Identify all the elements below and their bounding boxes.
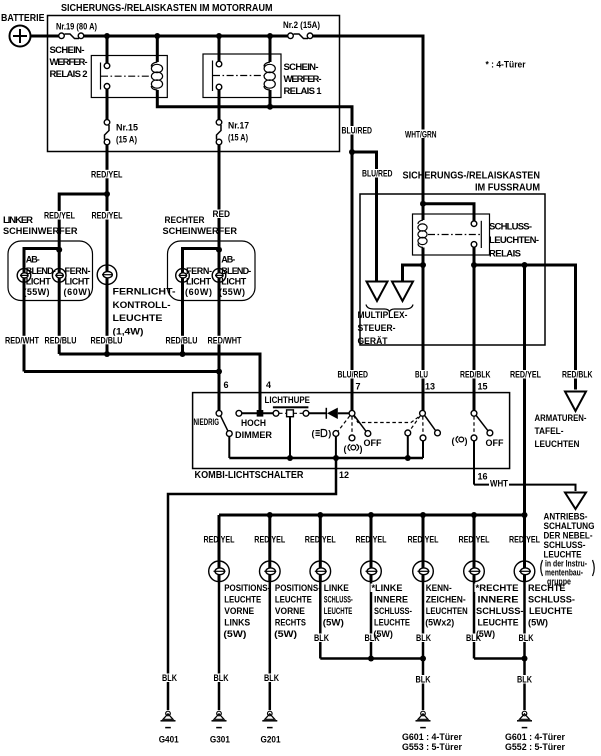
svg-text:OFF: OFF [364,438,382,449]
wire HOCH to pin4 to flasher contact [242,412,273,414]
svg-text:BLU: BLU [415,370,428,380]
node bus junction x219 [216,33,222,39]
node contact output split [471,262,477,268]
wire WHT/GRN from fuse Nr.2 to fuss-raum relay [313,36,424,204]
svg-text:BLEND-: BLEND- [221,266,251,276]
wire relay1 contact to fuse Nr.17 [218,90,221,120]
node flasher bridge on bus [287,455,293,461]
label RED/YEL below fuse box [90,169,124,179]
node RED/YEL tail feed junction [522,262,528,268]
wire right high beam down RED/BLU [181,283,184,354]
SECTION-LAMPS [159,512,575,752]
svg-text:BLK: BLK [314,633,329,643]
label RED/YEL lamp2 [253,535,286,545]
wire inside left headlight to low beam [24,249,59,269]
switch arm pole2 [425,416,436,431]
node bus x269.8 [267,512,273,518]
svg-text:SCHEIN-: SCHEIN- [284,62,319,73]
node bus x423 [420,512,426,518]
svg-text:(15 A): (15 A) [116,135,137,145]
svg-text:BLK: BLK [264,673,279,683]
svg-text:G601 : 4-Türer: G601 : 4-Türer [505,732,565,742]
node right headlight split [216,247,222,253]
label RED/BLU right [165,335,199,345]
svg-text:BLU/RED: BLU/RED [338,370,369,380]
contact flasher right [303,410,309,416]
tail light relay contact [471,221,481,248]
svg-text:WHT/GRN: WHT/GRN [405,130,437,140]
wire RED/YEL from fuse Nr.15 down [106,145,109,195]
lamp position front left (5W) [209,515,230,710]
wire left high beam down RED/BLU [58,283,61,354]
label LINKE SCHLUSS-LEUCHTE [323,583,353,628]
svg-text:INNERE: INNERE [478,595,519,605]
svg-text:LEUCHTE: LEUCHTE [478,618,519,628]
svg-text:RECHTER: RECHTER [165,215,205,226]
contact pin6 NIEDRIG [216,410,222,416]
dashes pole2 to left contact [410,416,421,431]
lamp left high beam (60W) [52,268,66,283]
svg-text:BLK: BLK [214,673,229,683]
svg-text:FERN-: FERN- [186,266,212,276]
wire bus to relay1 coil [269,36,272,62]
svg-text:LINKS: LINKS [224,618,250,628]
svg-text:Nr.15: Nr.15 [116,123,138,133]
wire tail relay contact down to pin 15 [473,247,476,411]
wire right low beam down RED/WHT to pin 6 [218,283,221,411]
label BLK G401 [161,673,178,683]
svg-text:LEUCHTE: LEUCHTE [224,595,261,605]
node lamp5 on ground bus [420,656,426,662]
contact pin7 pivot [349,410,355,416]
contact flasher left [273,410,279,416]
svg-text:AB-: AB- [26,255,40,265]
relay 2 contact [101,63,152,90]
wire BLU/RED down to pin 7 [351,152,354,411]
label BLK G201 [263,673,280,683]
label RED/YEL left branch [43,211,76,221]
wire coil output to multiplex right arrow [403,265,424,282]
node relay1 coil bottom junction [267,104,273,110]
svg-text:*LINKE: *LINKE [372,583,403,593]
svg-text:(: ( [452,436,455,446]
node lamp4 on ground bus [368,656,374,662]
wire right low beam feed [218,250,221,268]
node lamp7 on ground bus [522,656,528,662]
fuse Nr.2 (15A) [283,20,320,39]
node bus junction x270 [267,33,273,39]
label BLK lamp6 [465,633,482,643]
svg-text:(55W): (55W) [24,287,50,297]
svg-text:): ) [328,429,331,439]
svg-text:BATTERIE: BATTERIE [1,13,45,24]
wire RED/BLU bus to pin 4 [59,354,260,411]
node bus junction x157 [154,33,160,39]
relay 2 coil [151,62,162,90]
wire RED/YEL down to lamp bus [523,265,526,515]
wire BLK ground bus right group [474,657,525,660]
svg-text:ARMATUREN-: ARMATUREN- [535,413,587,424]
left headlight box [8,241,93,301]
label RED/YEL lamp1 [203,535,236,545]
contact pole3 pivot pin15 [471,410,477,416]
svg-text:(5W): (5W) [476,629,495,639]
diode D1 [326,408,349,419]
contact DIMMER common [226,431,232,437]
svg-text:4: 4 [266,380,271,390]
wire RED/YEL branch to left headlight [59,194,107,249]
label RECHTE INNERE SCHLUSS-LEUCHTE [475,583,524,639]
wire pin 16 down [473,441,475,485]
svg-text:RECHTS: RECHTS [275,618,306,628]
svg-text:): ) [465,436,468,446]
lamp left low beam (55W) [17,268,31,283]
label BLK G301 [213,673,230,683]
label BLU/RED upper [341,126,373,136]
svg-text:15: 15 [478,382,488,392]
wire headlight contact to ground bus [335,436,337,458]
svg-text:SCHLUSS-: SCHLUSS- [544,540,586,550]
label BLU/RED pin7 [337,370,369,380]
svg-text:16: 16 [478,472,488,482]
svg-text:Nr.17: Nr.17 [228,121,249,131]
svg-text:RELAIS 2: RELAIS 2 [50,69,88,80]
arrow to dash panel lights [565,392,586,412]
dashes linkage pole1 pole2 [354,416,421,423]
node pin12 takeoff on bus [333,455,339,461]
label position lamps symbol [344,444,363,454]
label RED [212,209,232,219]
node right high beam joins RED/BLU bus [180,351,186,357]
label RED/WHT left [4,335,40,345]
SECTION-SWITCH [168,380,595,710]
svg-text:(: ( [312,429,315,439]
svg-text:SCHEINWERFER: SCHEINWERFER [163,226,238,237]
svg-text:LICHTHUPE: LICHTHUPE [265,395,311,406]
node indicator joins RED/BLU bus [104,351,110,357]
svg-text:SCHLUSS-: SCHLUSS- [528,595,575,605]
ground G601/G553 [402,711,462,752]
SECTION-TOP [1,3,526,411]
label POSITIONSLEUCHTE VORNE LINKS [223,583,270,639]
relay 1 coil [264,62,275,90]
svg-text:LICHT: LICHT [221,276,247,286]
svg-text:RED/BLK: RED/BLK [562,370,593,380]
svg-text:RED/BLU: RED/BLU [91,335,123,345]
multiplex underbrace [366,305,413,312]
relay headlight relay 2 box [91,56,167,98]
svg-text:LEUCHTE: LEUCHTE [529,606,573,616]
svg-text:(5W): (5W) [274,629,297,639]
svg-text:SCHLUSS-: SCHLUSS- [374,606,412,616]
lamp left inner tail light (5W) [361,515,382,659]
svg-text:TAFEL-: TAFEL- [535,426,564,437]
switch arm pole1 to OFF [354,416,366,432]
node pole2 left on bus [405,455,411,461]
contact headlight position [333,431,339,437]
svg-text:BLK: BLK [416,633,431,643]
svg-text:12: 12 [339,470,349,480]
node bus x320.3 [317,512,323,518]
svg-text:Nr.2 (15A): Nr.2 (15A) [283,20,320,30]
svg-text:GERÄT: GERÄT [358,336,388,347]
svg-text:INNERE: INNERE [374,595,408,605]
lamp license plate lights (5Wx2) [413,515,434,659]
svg-text:RED/YEL: RED/YEL [510,370,541,380]
wire RED from fuse Nr.17 down [218,145,221,249]
svg-text:MULTIPLEX-: MULTIPLEX- [358,310,408,321]
svg-text:POSITIONS-: POSITIONS- [275,583,321,593]
svg-text:* : 4-Türer: * : 4-Türer [486,60,526,71]
svg-text:6: 6 [224,380,229,390]
label RECHTE SCHLUSS-LEUCHTE [528,583,575,628]
svg-text:(5W): (5W) [223,629,246,639]
switch arm pole3 to OFF [476,416,488,431]
label parking symbol [452,436,468,446]
lamp right inner tail light (5W) [464,515,485,659]
label RED/YEL mid branch [91,211,124,221]
svg-text:(15 A): (15 A) [228,133,248,143]
contact pole2 right [435,430,441,436]
svg-text:KENN-: KENN- [426,583,452,593]
label POSITIONSLEUCHTE VORNE RECHTS [274,583,321,639]
wire pole2 mid contact to ground bus [422,441,424,458]
lamp right tail light (5W) [514,515,535,659]
svg-text:STEUER-: STEUER- [358,323,396,334]
svg-text:SCHLUSS-: SCHLUSS- [324,595,353,605]
node WHT/GRN split above relay [420,201,426,207]
svg-text:RED: RED [213,209,231,219]
label KENNZEICHENLEUCHTEN [425,583,468,628]
dashes pole2 down [422,416,424,435]
svg-text:7: 7 [356,382,361,392]
svg-text:LINKER: LINKER [3,215,33,226]
svg-text:BLK: BLK [162,673,177,683]
svg-text:DER NEBEL-: DER NEBEL- [544,531,593,541]
svg-text:BLK: BLK [416,675,431,685]
wire ground bus to G601 left [422,659,425,711]
svg-text:): ) [360,444,363,454]
ground G601/G552 [505,711,565,752]
svg-text:BLU/RED: BLU/RED [362,169,393,179]
wire left low beam down RED/WHT [23,283,26,372]
label BLK lamp4 [364,633,381,643]
ground G401 [159,711,179,744]
svg-text:RELAIS: RELAIS [489,249,521,260]
svg-text:G601 : 4-Türer: G601 : 4-Türer [402,732,462,742]
svg-text:RED/YEL: RED/YEL [44,211,75,221]
label BLK G601 left [415,675,432,685]
svg-text:ANTRIEBS-: ANTRIEBS- [544,512,588,522]
label ANTRIEBS-SCHALTUNG DER NEBEL-SCHLUSS-LEUCHTE [541,512,595,587]
svg-text:G201: G201 [261,734,281,744]
wire relay1 coil bottom [269,90,272,107]
fuse/relay box engine compartment border [48,16,340,152]
contact HOCH [236,410,242,416]
fuse Nr.19 (80A) [56,22,97,39]
wire top bus y=36 [84,35,288,38]
lamp left tail light (5W) [310,515,331,659]
svg-text:*RECHTE: *RECHTE [476,583,519,593]
node bus junction x107 [104,33,110,39]
svg-text:13: 13 [425,382,435,392]
svg-text:(60W): (60W) [64,287,91,297]
svg-text:RECHTE: RECHTE [528,583,566,593]
wire pin 12 to ground G401 [168,458,336,710]
wire flasher bridge to ground bus [289,417,291,458]
svg-text:RED/YEL: RED/YEL [91,169,123,179]
label RED/YEL lamp4 [355,535,388,545]
svg-text:LEUCHTE: LEUCHTE [275,595,312,605]
svg-text:(5Wx2): (5Wx2) [425,618,454,628]
node bus x474 [471,512,477,518]
svg-text:VORNE: VORNE [275,606,305,616]
wire flasher to diode [309,412,326,414]
svg-text:LEUCHTE: LEUCHTE [374,618,410,628]
svg-text:G301: G301 [210,734,230,744]
svg-text:WERFER-: WERFER- [284,74,322,85]
svg-text:FERNLICHT-: FERNLICHT- [113,287,176,298]
svg-text:WHT: WHT [490,479,508,489]
node right low beam joins RED/WHT bus [216,369,222,375]
label BLK lamp7 [518,633,535,643]
svg-text:SCHEIN-: SCHEIN- [50,45,85,56]
relay 1 contact [213,61,264,92]
svg-text:RED/BLU: RED/BLU [45,335,77,345]
wire tail relay coil to pin 13 [422,248,425,412]
fuse Nr.17 (15A) [216,120,249,145]
wire contact output to dash lights RED/BLK [474,265,576,390]
contact OFF pole3 [487,430,493,436]
node RED/YEL split [104,191,110,197]
label RED/BLK pin15 [459,370,491,380]
wire relay coils common to BLU/RED takeoff [157,90,352,152]
svg-text:(55W): (55W) [219,287,245,297]
svg-text:LEUCHTE: LEUCHTE [113,313,163,324]
node pin 4 junction [257,410,264,417]
fuse/relay box footwell border [360,194,545,345]
svg-text:SCHLUSS-: SCHLUSS- [489,222,532,233]
label RED/YEL lamp7 [508,535,541,545]
node bus x371 [368,512,374,518]
combination light switch box [193,393,510,469]
battery B1 [1,13,45,47]
svg-text:(: ( [344,444,347,454]
lamp position front right (5W) [260,515,281,710]
svg-text:LEUCHTEN-: LEUCHTEN- [489,235,539,246]
svg-text:SCHALTUNG: SCHALTUNG [544,521,595,531]
svg-text:LEUCHTEN: LEUCHTEN [535,439,580,450]
svg-text:IM FUSSRAUM: IM FUSSRAUM [475,183,540,194]
svg-text:LICHT: LICHT [186,276,212,286]
label BLK lamp3 [313,633,330,643]
svg-text:OFF: OFF [486,438,504,449]
svg-text:WERFER-: WERFER- [50,57,88,68]
svg-text:BLEND-: BLEND- [26,266,56,276]
contact pole2 pivot [420,410,426,416]
flasher bridge contact [287,410,294,417]
svg-text:G401: G401 [159,734,179,744]
dashes flasher bridge [279,412,287,414]
wire BLU/RED jog to multiplex feed [352,152,377,282]
wire RED/YEL to high-beam indicator [106,194,109,354]
label RED/BLK far right [561,370,593,380]
svg-text:BLK: BLK [517,675,532,685]
relay headlight relay 1 box [203,54,281,98]
svg-text:SCHLUSS-: SCHLUSS- [476,606,524,616]
svg-text:LEUCHTE: LEUCHTE [324,606,353,616]
label headlight symbol [312,429,332,439]
svg-text:DIMMER: DIMMER [235,430,273,440]
SECTION-MID [3,145,593,516]
wire ground bus to G601 right [523,659,526,711]
dashes pole3 down [473,416,475,435]
svg-text:HOCH: HOCH [241,418,266,428]
svg-text:VORNE: VORNE [224,606,254,616]
wire bus to relay2 coil [156,36,159,62]
node bus x524.5 [522,512,528,518]
multiplex arrow left [367,282,388,302]
svg-text:KONTROLL-: KONTROLL- [113,300,171,311]
wire bus to relay1 contact [218,36,221,62]
label RED/BLU mid [90,335,124,345]
node left headlight split [56,247,62,253]
wire lamp feed bus RED/YEL [219,514,525,517]
svg-text:ZEICHEN-: ZEICHEN- [426,595,466,605]
fuse Nr.15 (15A) [104,120,138,145]
svg-text:RELAIS 1: RELAIS 1 [284,86,323,97]
svg-text:RED/BLK: RED/BLK [460,370,491,380]
lamp right high beam (60W) [176,268,190,283]
label RED/YEL lamp3 [304,535,337,545]
svg-text:SICHERUNGS-/RELAISKASTEN: SICHERUNGS-/RELAISKASTEN [403,171,541,182]
lamp right low beam (55W) [212,268,226,283]
contact pole2 mid [420,435,426,441]
wire inside right headlight to high beam [183,249,220,269]
label WHT [489,479,509,489]
svg-text:SCHEINWERFER: SCHEINWERFER [3,226,78,237]
label BLU/RED lower [361,169,393,179]
wire to tail light relay coil [422,204,425,220]
wire switch internal ground bus [229,457,423,460]
svg-text:KOMBI-LICHTSCHALTER: KOMBI-LICHTSCHALTER [195,470,305,481]
wire pole2 left contact to ground bus [407,436,409,458]
svg-text:BLU/RED: BLU/RED [342,126,373,136]
label BLK G601 right [516,675,533,685]
node coil output split [420,262,426,268]
label RED/YEL lamp6 [458,535,491,545]
svg-text:RED/WHT: RED/WHT [208,335,242,345]
svg-text:RED/BLU: RED/BLU [166,335,198,345]
svg-text:Nr.19 (80 A): Nr.19 (80 A) [56,22,97,32]
svg-text:G553 : 5-Türer: G553 : 5-Türer [402,742,462,752]
contact pole2 left [405,430,411,436]
label RED/WHT right [207,335,243,345]
wire bus to relay2 contact [106,36,109,64]
svg-text:POSITIONS-: POSITIONS- [224,583,270,593]
svg-text:(5W): (5W) [323,618,344,628]
contact position lamps [349,435,355,441]
right headlight box [168,241,256,301]
multiplex arrow right [392,282,413,302]
svg-text:LEUCHTEN: LEUCHTEN [426,606,468,616]
svg-text:G552 : 5-Türer: G552 : 5-Türer [505,742,565,752]
svg-text:LICHT: LICHT [65,276,91,286]
wire relay2 contact to fuse Nr.15 [106,89,109,120]
underline LICHTHUPE [273,406,309,408]
relay tail light relay box [413,214,490,255]
svg-text:RED/YEL: RED/YEL [92,211,123,221]
